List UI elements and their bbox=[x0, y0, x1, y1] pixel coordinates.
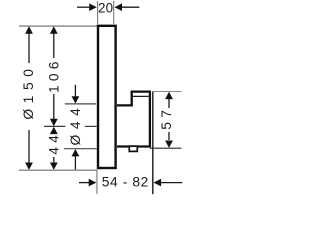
centerline tick left segment bbox=[44, 125, 65, 127]
arrow Ø44 down bbox=[72, 96, 80, 103]
faceplate bbox=[98, 26, 116, 168]
knob bottom tick (y148.7) bbox=[64, 148, 97, 150]
arrow 106 up bbox=[50, 26, 58, 33]
dim Ø44 stem bottom bbox=[74, 156, 76, 170]
svg-text:4 4: 4 4 bbox=[46, 135, 61, 155]
dim line 106 bbox=[53, 33, 55, 121]
svg-text:1 0 6: 1 0 6 bbox=[46, 61, 61, 93]
arrow 54-82 right (points left) bbox=[154, 179, 162, 187]
centerline tick right segment bbox=[85, 125, 97, 127]
clip notch bbox=[129, 146, 137, 151]
arrow 44 up bbox=[50, 127, 58, 134]
extension line 20 right bbox=[113, 1, 115, 24]
dim 54-82 tail right bbox=[161, 182, 182, 184]
arrow 20 right (points left) bbox=[114, 3, 122, 11]
dim 20 tail right bbox=[122, 6, 139, 8]
dim Ø44 stem top bbox=[74, 85, 76, 97]
extension tick 57 bottom bbox=[150, 147, 182, 149]
svg-text:54 - 82: 54 - 82 bbox=[102, 174, 149, 189]
handle body bbox=[117, 92, 150, 147]
extension tick 57 top bbox=[153, 91, 181, 93]
svg-text:Ø 4 4: Ø 4 4 bbox=[68, 107, 83, 145]
dim 54-82 tail left bbox=[79, 182, 89, 184]
svg-text:Ø 1 5 0: Ø 1 5 0 bbox=[21, 68, 36, 120]
extension line 20 left bbox=[97, 1, 99, 24]
extension line 54-82 left bbox=[96, 170, 98, 194]
dim 20 tail left bbox=[77, 6, 89, 8]
arrow 106 down bbox=[50, 119, 58, 126]
arrow Ø150 down bbox=[25, 163, 33, 170]
arrow 44 down bbox=[50, 163, 58, 170]
arrow 54-82 left (points right) bbox=[89, 179, 97, 187]
arrow Ø150 up bbox=[25, 26, 33, 33]
wall line bbox=[152, 92, 154, 195]
arrow 57 down bbox=[165, 141, 173, 148]
arrow 20 left (points right) bbox=[89, 3, 97, 11]
extension line top (plate top edge, y26) bbox=[19, 25, 97, 27]
dim line 57 bbox=[168, 98, 170, 140]
dim line Ø150 bbox=[28, 33, 30, 164]
arrow Ø44 up bbox=[72, 149, 80, 156]
button cap line bbox=[133, 95, 149, 97]
extension line bottom (plate bottom edge, y170) bbox=[19, 169, 97, 171]
knob top tick (y104) bbox=[65, 103, 96, 105]
dim line 44 bbox=[53, 157, 55, 163]
arrow 57 up bbox=[165, 92, 173, 99]
svg-text:20: 20 bbox=[98, 0, 113, 15]
svg-text:5 7: 5 7 bbox=[159, 110, 174, 130]
